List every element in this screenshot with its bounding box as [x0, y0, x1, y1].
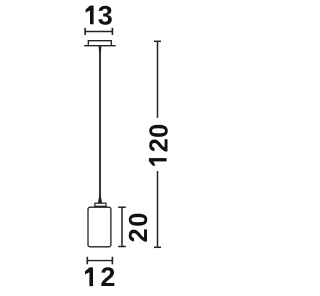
- strain relief: [99, 46, 102, 52]
- dim label 12 : custom footless "1" + "2": [85, 267, 93, 286]
- svg-text:20: 20: [146, 123, 174, 152]
- socket: [95, 203, 106, 206]
- dim line 12: [87, 257, 112, 265]
- svg-text:3: 3: [98, 0, 113, 30]
- dim line 120 upper segment: [154, 41, 161, 118]
- dim line 20: [118, 207, 126, 246]
- svg-text:20: 20: [125, 211, 153, 243]
- canopy base plate: [85, 45, 115, 47]
- cord teardrop at socket: [98, 197, 102, 204]
- dim line 13: [85, 28, 112, 35]
- shade cylinder: [88, 207, 111, 247]
- dim label 13 : custom footless "1" + "3": [86, 6, 94, 25]
- canopy: [88, 41, 111, 46]
- dim line 120 lower segment: [154, 171, 161, 247]
- cord: [99, 50, 101, 197]
- svg-text:2: 2: [100, 262, 115, 292]
- dim label 120 : custom footless rotated "1" + "20": [149, 158, 167, 161]
